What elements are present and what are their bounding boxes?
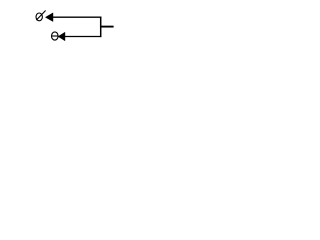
wire bottom [65, 36, 102, 38]
arrowhead (top input arrow) [46, 13, 53, 21]
wire top [53, 16, 102, 18]
wire output stub [101, 26, 114, 28]
node label theta-slash (top glyph) [36, 11, 46, 21]
wire vertical bus [100, 17, 102, 37]
node label theta (bottom glyph) [52, 32, 59, 40]
arrowhead (bottom input arrow) [58, 32, 65, 40]
